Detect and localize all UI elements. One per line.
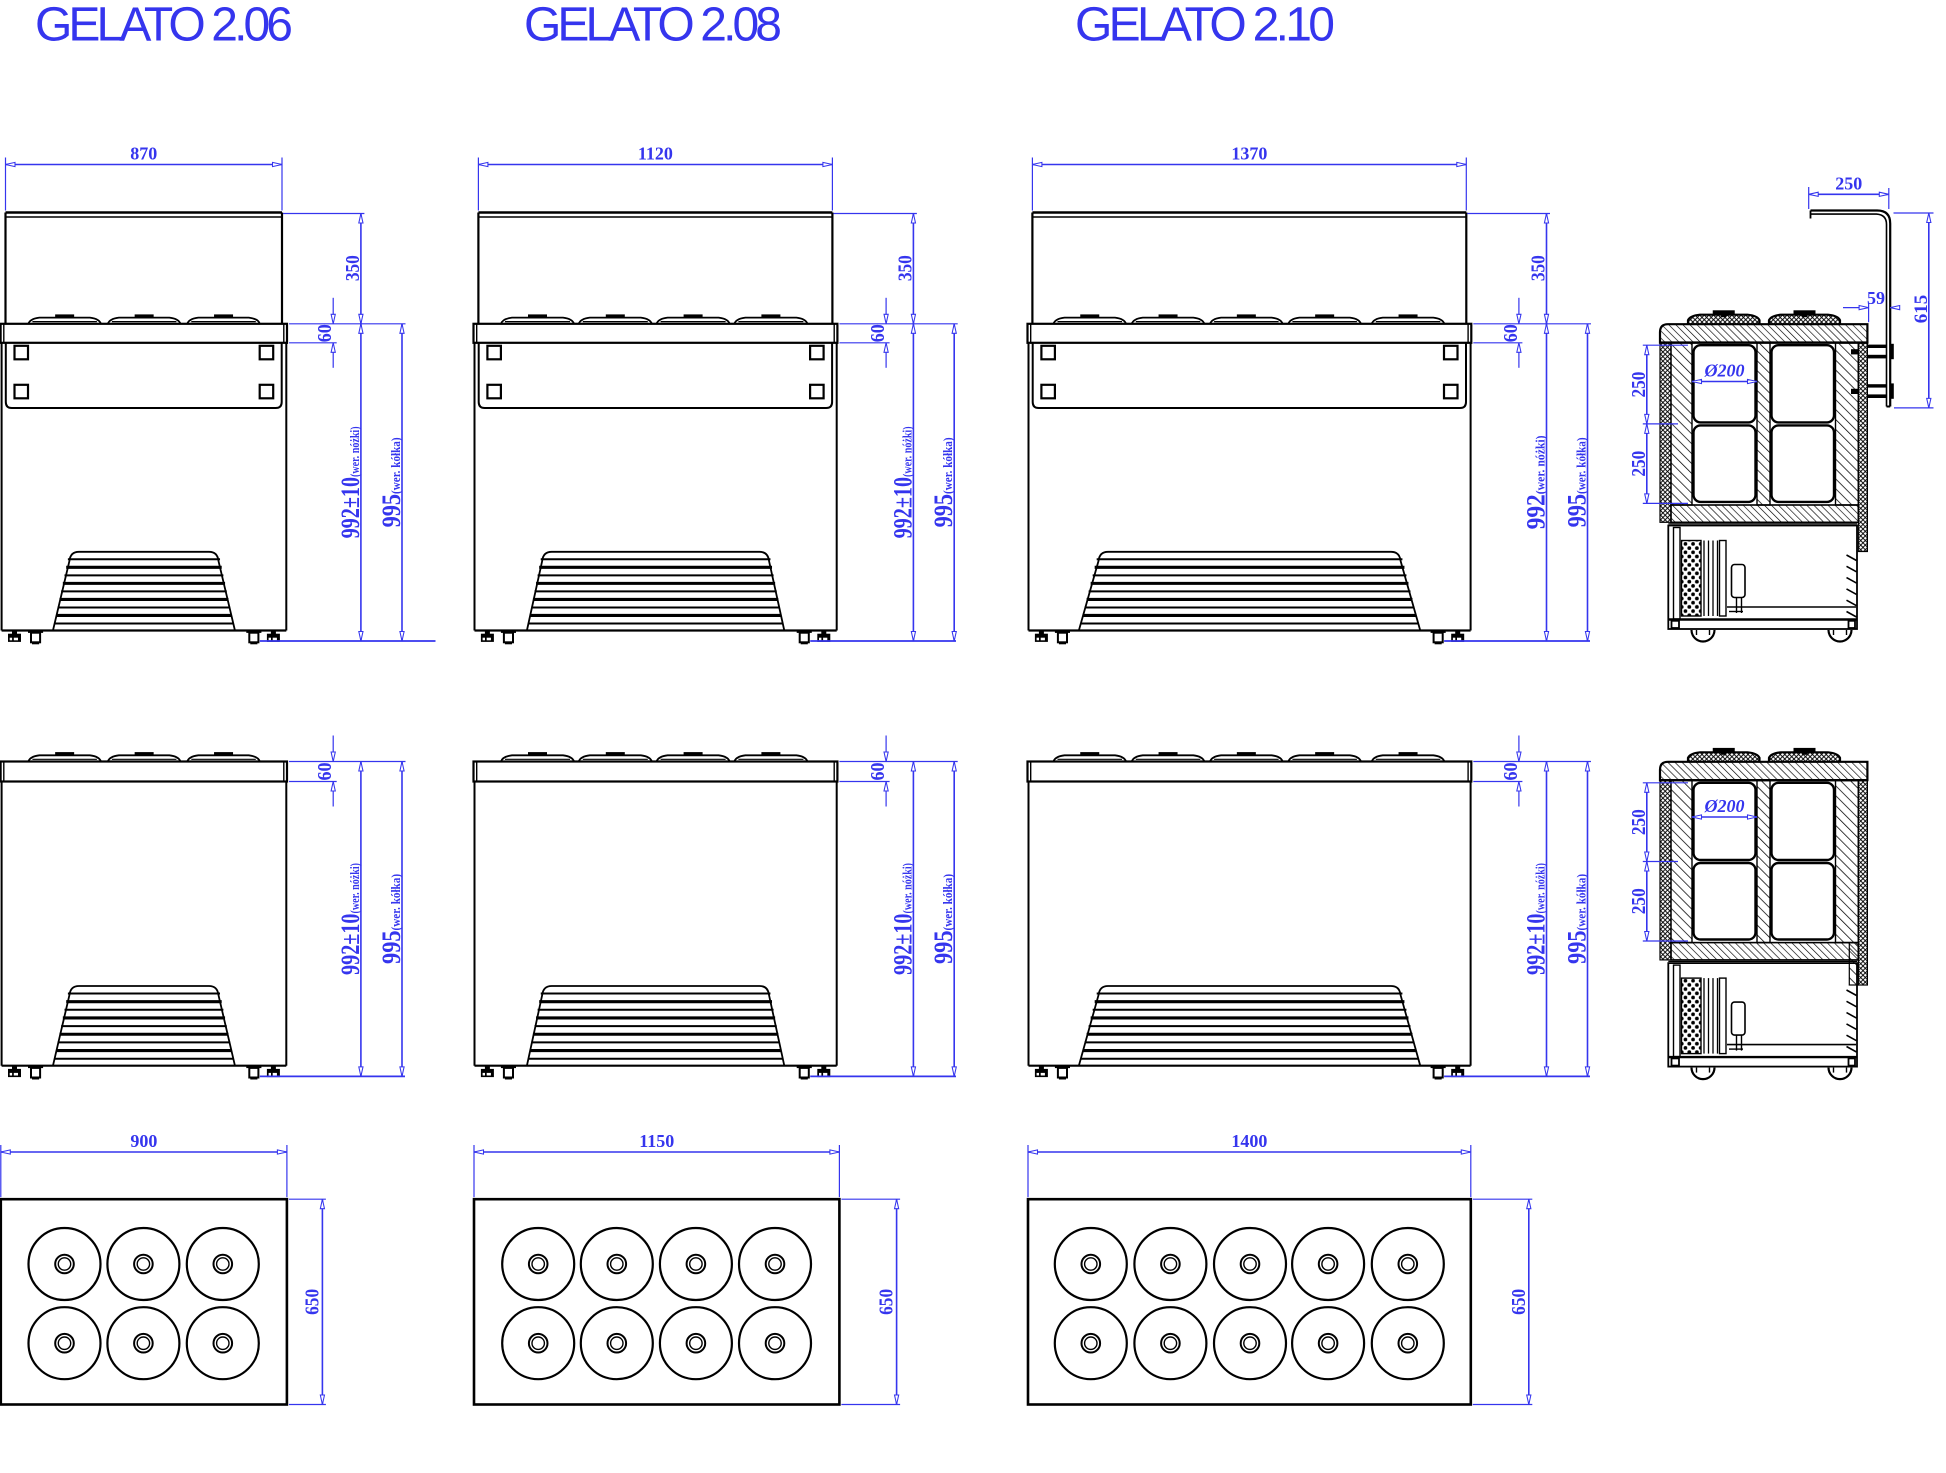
GELATO 2.06 top view canister openings — [29, 1228, 259, 1379]
GELATO 2.10 side-less view counter band — [1028, 762, 1472, 782]
svg-text:Ø200: Ø200 — [1704, 361, 1745, 381]
side section lower middle partition section — [1757, 780, 1770, 942]
side section lower right wall section — [1836, 780, 1868, 985]
side section dimension 250 (lower canister) — [1628, 424, 1650, 504]
svg-text:250: 250 — [1835, 173, 1862, 193]
svg-text:1400: 1400 — [1231, 1131, 1267, 1151]
GELATO 2.06 front view cabinet body — [2, 343, 287, 631]
GELATO 2.08 side-less view ventilation grille — [527, 986, 784, 1066]
GELATO 2.10 top view countertop outline — [1028, 1199, 1471, 1404]
GELATO 2.06 side-less view dimension 60 — [289, 736, 406, 807]
GELATO 2.10 front view dimension 995 — [1563, 324, 1592, 641]
svg-text:60: 60 — [1500, 763, 1522, 781]
GELATO 2.10 front view ground line — [1444, 640, 1590, 642]
GELATO 2.10 top view width dimension 1400 — [1028, 1131, 1471, 1197]
svg-text:900: 900 — [130, 1131, 157, 1151]
GELATO 2.06 side-less view ground line — [260, 1075, 405, 1077]
side section lower frame corner blocks — [1672, 1058, 1856, 1065]
side canopy glass — [1811, 211, 1891, 407]
GELATO 2.10 front view counter band — [1028, 324, 1472, 343]
GELATO 2.10 side-less view adjustable feet — [1035, 1066, 1464, 1080]
GELATO 2.10 front view adjustable feet — [1035, 631, 1464, 645]
side dimension 250 (canopy top) — [1809, 173, 1889, 209]
svg-text:350: 350 — [342, 255, 364, 281]
GELATO 2.08 top view canister openings — [502, 1228, 811, 1379]
GELATO 2.08 top view dimension 650 — [841, 1199, 900, 1404]
side dimension 59 — [1843, 288, 1900, 322]
side section machine compartment — [1668, 524, 1857, 629]
side section castor wheels — [1692, 630, 1852, 642]
GELATO 2.10 side-less view dimension 992±10 — [1522, 762, 1551, 1077]
svg-text:250: 250 — [1628, 372, 1650, 398]
svg-text:59: 59 — [1867, 288, 1885, 308]
GELATO 2.08 side-less view canister lids — [501, 752, 807, 761]
GELATO 2.06 side-less view ventilation grille — [53, 986, 235, 1066]
GELATO 2.06 side-less view dimension 992±10 — [336, 762, 365, 1077]
side section lower canisters (section) — [1694, 783, 1835, 940]
GELATO 2.08 front view width dimension 1120 — [478, 144, 832, 211]
GELATO 2.06 front view canister lids — [28, 314, 259, 323]
GELATO 2.06 front view dimension 992±10 — [336, 324, 365, 641]
GELATO 2.10 front view width dimension 1370 — [1032, 144, 1466, 211]
svg-text:650: 650 — [301, 1289, 323, 1315]
side section lower rear louvres — [1847, 990, 1857, 1052]
svg-text:GELATO 2.08: GELATO 2.08 — [524, 0, 782, 52]
svg-text:60: 60 — [1500, 324, 1522, 342]
GELATO 2.06 top view dimension 650 — [289, 1199, 326, 1404]
svg-text:60: 60 — [867, 324, 889, 342]
GELATO 2.08 front view glass front panel — [478, 213, 832, 324]
svg-text:60: 60 — [867, 763, 889, 781]
svg-text:250: 250 — [1628, 451, 1650, 477]
svg-text:GELATO 2.10: GELATO 2.10 — [1075, 0, 1335, 52]
GELATO 2.06 front view dimension 995 — [377, 324, 406, 641]
GELATO 2.08 front view adjustable feet — [481, 631, 830, 645]
GELATO 2.08 side-less view dimension 992±10 — [888, 762, 917, 1077]
GELATO 2.10 side-less view cabinet body — [1029, 782, 1471, 1066]
GELATO 2.06 front view adjustable feet — [8, 631, 280, 645]
side section left wall section — [1660, 343, 1692, 523]
GELATO 2.06 side-less view adjustable feet — [8, 1066, 280, 1080]
svg-text:615: 615 — [1911, 295, 1932, 324]
GELATO 2.10 front view front access panel — [1033, 343, 1466, 408]
svg-text:Ø200: Ø200 — [1704, 796, 1745, 816]
GELATO 2.08 front view canister lids — [501, 314, 807, 323]
GELATO 2.08 front view dimension 992±10 — [888, 324, 917, 641]
GELATO 2.06 front view counter band — [1, 324, 287, 343]
GELATO 2.10 front view ventilation grille — [1079, 552, 1420, 631]
GELATO 2.08 top view countertop outline — [474, 1199, 839, 1404]
side section canister lids (section) — [1688, 310, 1840, 324]
side section compressor — [1729, 565, 1745, 614]
side section dimension Ø200 — [1692, 361, 1757, 384]
side section counter band (hatched) — [1660, 324, 1867, 342]
GELATO 2.10 front view canister lids — [1054, 314, 1445, 323]
GELATO 2.06 front view dimension 350 — [283, 214, 364, 324]
side section right wall section — [1836, 343, 1868, 552]
GELATO 2.08 front view ground line — [810, 640, 956, 642]
svg-text:1150: 1150 — [639, 1131, 674, 1151]
glass mounting bracket — [1851, 344, 1894, 399]
svg-text:60: 60 — [314, 324, 336, 342]
side section frame corner blocks — [1672, 621, 1856, 628]
side section bottom insulation (hatched) — [1671, 505, 1858, 522]
GELATO 2.06 front view panel screws — [15, 346, 274, 399]
svg-text:350: 350 — [1528, 255, 1550, 281]
svg-text:250: 250 — [1628, 888, 1650, 914]
GELATO 2.08 side-less view cabinet body — [475, 782, 837, 1066]
side section lower machine compartment — [1668, 961, 1857, 1066]
GELATO 2.06 side-less view cabinet body — [2, 782, 287, 1066]
side section lower canister lids (section) — [1688, 748, 1840, 762]
svg-text:650: 650 — [1508, 1289, 1530, 1315]
svg-text:650: 650 — [876, 1289, 898, 1315]
GELATO 2.08 side-less view ground line — [810, 1075, 956, 1077]
GELATO 2.06 top view countertop outline — [1, 1199, 287, 1404]
GELATO 2.06 front view dimension 60 — [289, 298, 406, 368]
svg-text:1120: 1120 — [638, 144, 673, 164]
svg-text:350: 350 — [894, 255, 916, 281]
GELATO 2.10 side-less view dimension 60 — [1473, 736, 1591, 807]
side section middle partition section — [1757, 343, 1770, 505]
side dimension 615 — [1894, 213, 1934, 408]
svg-text:250: 250 — [1628, 809, 1650, 835]
GELATO 2.06 front view ventilation grille — [53, 552, 235, 631]
GELATO 2.10 top view dimension 650 — [1473, 1199, 1533, 1404]
GELATO 2.08 front view cabinet body — [475, 343, 837, 631]
GELATO 2.08 side-less view adjustable feet — [481, 1066, 830, 1080]
GELATO 2.10 side-less view ventilation grille — [1079, 986, 1420, 1066]
side section lower condenser (dotted) — [1674, 965, 1727, 1057]
GELATO 2.06 front view ground line — [260, 640, 436, 642]
GELATO 2.10 side-less view ground line — [1444, 1075, 1590, 1077]
GELATO 2.06 front view glass front panel — [6, 213, 283, 324]
svg-text:1370: 1370 — [1231, 144, 1267, 164]
side section lower dimension Ø200 — [1692, 796, 1757, 819]
svg-text:GELATO 2.06: GELATO 2.06 — [35, 0, 293, 52]
GELATO 2.10 front view glass front panel — [1032, 213, 1466, 324]
GELATO 2.06 front view width dimension 870 — [6, 144, 283, 211]
side section rear louvres — [1847, 555, 1857, 617]
svg-text:60: 60 — [314, 763, 336, 781]
side section lower castor wheels — [1692, 1068, 1852, 1080]
GELATO 2.10 side-less view canister lids — [1054, 752, 1445, 761]
GELATO 2.08 front view dimension 60 — [839, 298, 957, 368]
side section dimension 250 (upper canister) — [1628, 345, 1688, 503]
GELATO 2.08 side-less view dimension 60 — [839, 736, 957, 807]
GELATO 2.10 front view cabinet body — [1029, 343, 1471, 631]
GELATO 2.08 front view ventilation grille — [527, 552, 784, 631]
GELATO 2.06 top view width dimension 900 — [1, 1131, 287, 1197]
GELATO 2.08 front view panel screws — [487, 346, 823, 399]
GELATO 2.10 front view dimension 60 — [1473, 298, 1591, 368]
side section lower left wall section — [1660, 780, 1692, 960]
side section lower bottom insulation (hatched) — [1671, 943, 1858, 960]
GELATO 2.06 side-less view canister lids — [28, 752, 259, 761]
side section lower dimension 250 (lower canister) — [1628, 862, 1650, 942]
GELATO 2.10 front view dimension 992 — [1522, 324, 1551, 641]
GELATO 2.06 side-less view counter band — [1, 762, 287, 782]
svg-text:870: 870 — [130, 144, 157, 164]
GELATO 2.06 front view front access panel — [6, 343, 282, 408]
GELATO 2.08 front view dimension 350 — [833, 214, 917, 324]
side section lower counter band (hatched) — [1660, 762, 1867, 780]
GELATO 2.10 side-less view dimension 995 — [1563, 762, 1592, 1077]
GELATO 2.10 top view canister openings — [1055, 1228, 1444, 1379]
GELATO 2.10 front view dimension 350 — [1467, 214, 1550, 324]
side section condenser (dotted) — [1674, 528, 1727, 620]
side section lower compressor — [1729, 1002, 1745, 1051]
GELATO 2.10 front view panel screws — [1041, 346, 1457, 399]
side section lower dimension 250 (upper canister) — [1628, 783, 1688, 941]
GELATO 2.08 side-less view counter band — [474, 762, 838, 782]
side section canisters (section) — [1694, 345, 1835, 502]
GELATO 2.08 side-less view dimension 995 — [929, 762, 958, 1077]
GELATO 2.08 front view counter band — [474, 324, 838, 343]
GELATO 2.06 side-less view dimension 995 — [377, 762, 406, 1077]
GELATO 2.08 top view width dimension 1150 — [474, 1131, 839, 1197]
GELATO 2.08 front view dimension 995 — [929, 324, 958, 641]
GELATO 2.08 front view front access panel — [479, 343, 832, 408]
